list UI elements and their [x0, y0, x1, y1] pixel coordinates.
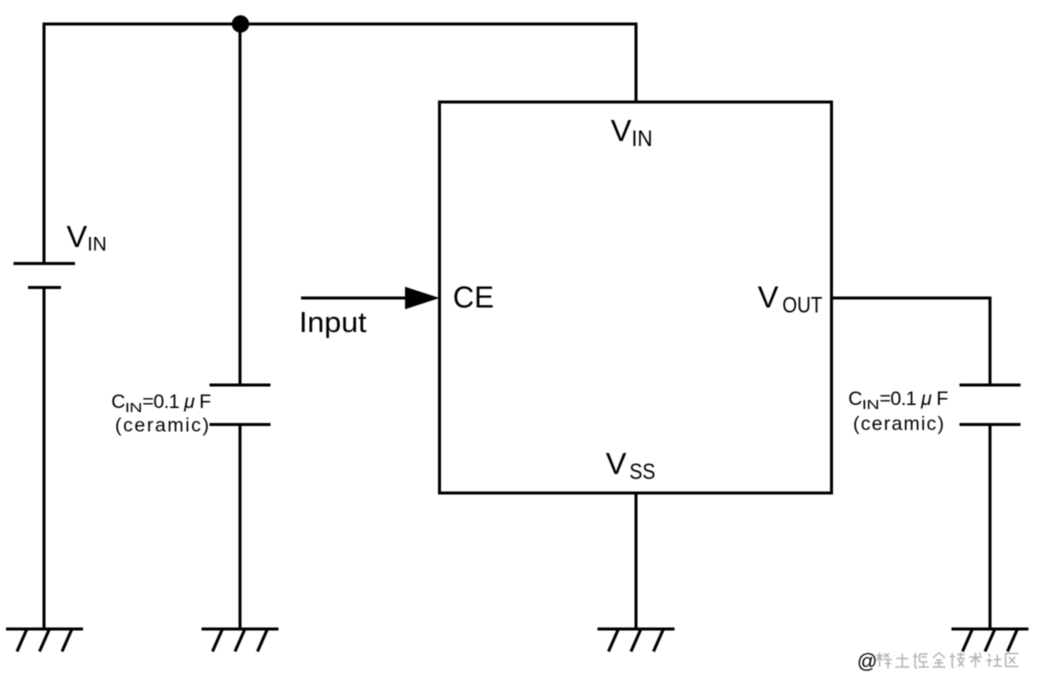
- svg-text:CE: CE: [453, 280, 494, 315]
- wire: CIN down to ground: [239, 425, 242, 630]
- svg-text:Input: Input: [299, 307, 367, 339]
- node: junction of battery, CIN and VIN rail: [232, 15, 249, 32]
- svg-text:@: @: [857, 651, 877, 673]
- capacitor CIN: [210, 385, 271, 425]
- ground: COUT: [952, 629, 1029, 652]
- watermark: @稀土掘金技术社区: [857, 651, 1019, 673]
- svg-text:(ceramic): (ceramic): [853, 413, 944, 435]
- wire: junction down to CIN: [239, 24, 242, 385]
- wire: COUT down to ground: [989, 425, 992, 630]
- wire: battery negative down to ground: [43, 288, 46, 630]
- input arrow into CE pin: [301, 287, 440, 309]
- wire: top rail (battery node to VIN pin): [43, 23, 638, 26]
- wire: VOUT pin to COUT (horizontal): [832, 297, 991, 300]
- capacitor COUT: [960, 385, 1021, 425]
- wire: drop to COUT: [989, 297, 992, 386]
- regulator IC U1 (box): [440, 102, 832, 493]
- ground: CIN: [202, 629, 279, 652]
- battery B1 (VIN source): [14, 264, 76, 288]
- ground: battery: [6, 629, 83, 652]
- wire: VSS pin down to ground: [635, 493, 638, 629]
- wire: battery positive up to top rail: [43, 23, 46, 264]
- wire: drop from rail to regulator VIN pin: [635, 24, 638, 102]
- svg-text:(ceramic): (ceramic): [115, 415, 209, 437]
- ground: VSS: [598, 629, 675, 652]
